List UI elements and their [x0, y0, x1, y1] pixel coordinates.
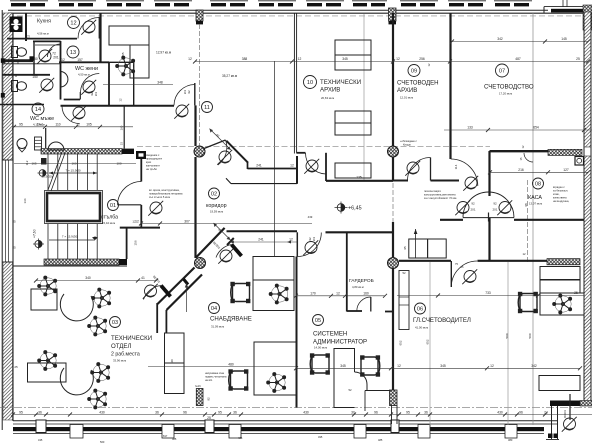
bottom window niches: [70, 425, 517, 439]
wall kitchen left x26: [25, 13, 27, 41]
fan wc lower: [39, 78, 54, 93]
svg-text:ТЕХНИЧЕСКИ: ТЕХНИЧЕСКИ: [111, 335, 152, 342]
wall hatched y149-154 (wc/stair): [41, 149, 122, 154]
svg-text:112: 112: [25, 160, 29, 165]
dim line y41.5 top right: [452, 41, 588, 43]
svg-text:40: 40: [170, 359, 174, 363]
dim diag arrow vestibule: [214, 223, 231, 240]
door room06: leaf + arc: [450, 261, 452, 287]
svg-text:със стъкло 5 кв.м: със стъкло 5 кв.м: [149, 195, 170, 199]
door room07: arc: [451, 159, 478, 186]
axis x364: [363, 14, 365, 180]
svg-text:ГЛ.СЧЕТОВОДИТЕЛ: ГЛ.СЧЕТОВОДИТЕЛ: [413, 317, 471, 324]
svg-text:06: 06: [417, 307, 423, 313]
wall stair-corridor x141.3 lower: [140, 205, 142, 227]
fan wc-muzhe: [71, 106, 86, 121]
node room12 circle: [68, 17, 80, 29]
svg-text:07: 07: [499, 69, 505, 75]
half-round sink at stair wall: [48, 142, 64, 150]
dim line y414.5 bottom: [13, 414, 592, 416]
svg-text:4,80 кв.м: 4,80 кв.м: [352, 285, 364, 289]
chair room04 lower: [267, 373, 286, 393]
door wc-muzhe arc: [62, 106, 80, 124]
safe box kasa: [575, 157, 584, 166]
wall wc y60.7: [2, 59, 33, 62]
svg-text:09: 09: [411, 69, 417, 75]
svg-text:12: 12: [61, 58, 65, 62]
svg-text:241: 241: [258, 238, 264, 242]
node room03 circle: [110, 317, 121, 328]
svg-text:388: 388: [242, 57, 248, 61]
wall niche diagonal: [226, 178, 231, 183]
svg-text:03: 03: [112, 320, 118, 326]
svg-text:17,20 кв.м: 17,20 кв.м: [499, 92, 512, 96]
svg-text:817: 817: [163, 434, 168, 438]
column corridor south: [195, 258, 206, 269]
radiator wc: [35, 137, 42, 150]
door tag box: [136, 151, 146, 159]
svg-text:96: 96: [519, 410, 523, 414]
level mark upper flight: [39, 170, 46, 177]
pedestal sink wc-muzhe: [17, 139, 27, 149]
wall end hatched pier x393: [390, 390, 398, 406]
wall kasa top y151.2: [490, 150, 549, 152]
svg-text:92: 92: [90, 92, 94, 96]
svg-text:WC жени: WC жени: [75, 66, 98, 72]
svg-text:04: 04: [211, 306, 217, 312]
toilet 2: [12, 81, 18, 92]
round desk room03 upper: [60, 294, 93, 321]
svg-text:201: 201: [312, 236, 316, 241]
svg-text:11: 11: [204, 105, 210, 111]
svg-text:165: 165: [31, 162, 36, 166]
node room04 circle: [209, 303, 220, 314]
svg-text:WC мъже: WC мъже: [30, 116, 54, 122]
wall garderob south y311: [347, 310, 362, 312]
svg-text:345: 345: [340, 364, 346, 368]
door kasa small arc: [524, 153, 533, 162]
door wc13: arc: [48, 44, 61, 57]
armchair room06: [518, 292, 537, 312]
svg-text:485: 485: [378, 438, 383, 442]
svg-text:12: 12: [336, 292, 340, 296]
svg-text:96: 96: [183, 410, 187, 414]
svg-text:36: 36: [38, 410, 42, 414]
wall room05-06 x393: [392, 222, 394, 257]
svg-text:652: 652: [399, 340, 403, 345]
svg-text:+6,45: +6,45: [348, 206, 362, 212]
svg-text:36: 36: [155, 410, 159, 414]
chair room04 upper: [269, 284, 288, 304]
dim line y366.5 room03 lower part: [148, 366, 296, 368]
wall bottom assembly: [0, 394, 592, 444]
fan corridor-north: [217, 150, 232, 165]
svg-text:на тръби: на тръби: [146, 167, 157, 171]
svg-text:13: 13: [70, 50, 76, 56]
svg-text:430: 430: [497, 410, 503, 414]
svg-text:439: 439: [308, 215, 313, 219]
node room01 circle: [108, 200, 119, 211]
node room08 circle: [533, 178, 544, 189]
wall corridor west x195.5: [194, 105, 196, 146]
axis x274: [274, 61, 276, 256]
svg-text:12: 12: [132, 220, 136, 224]
door diagonal corridor lower: black leaf + arc: [161, 286, 171, 297]
pier hatched mid-bottom x196: [196, 389, 203, 406]
svg-text:12: 12: [70, 21, 76, 27]
fan room05 door: [303, 240, 318, 255]
wall niche y168.5: [248, 168, 298, 170]
svg-text:25: 25: [12, 220, 16, 224]
dim line y295.8 garderob: [297, 295, 386, 297]
node room02 circle: [209, 188, 220, 199]
svg-text:за с онеустойчивост 72 мм.: за с онеустойчивост 72 мм.: [424, 196, 457, 200]
chair room 12.97: [116, 56, 135, 76]
svg-text:напушване с/на: напушване с/на: [205, 371, 224, 375]
svg-text:СИСТЕМЕН: СИСТЕМЕН: [313, 331, 347, 338]
svg-text:256: 256: [419, 57, 425, 61]
wall vestibule east x297: [296, 156, 298, 184]
pier hatched (top, at x196): [196, 10, 203, 24]
svg-text:342: 342: [497, 37, 503, 41]
wall wc-zheni south y99.5: [64, 99, 80, 101]
svg-text:30: 30: [351, 410, 355, 414]
wall garderob west x346.8: [346, 232, 348, 312]
armchair room05 right: [361, 356, 380, 376]
svg-text:500: 500: [528, 333, 532, 338]
wall wc-muzhe top y104.5: [0, 104, 44, 106]
svg-text:216: 216: [518, 168, 524, 172]
wall diagonal corridor SE lower: [167, 275, 203, 311]
svg-text:6: 6: [17, 61, 19, 65]
dim line y163.5 stair: [14, 163, 136, 165]
wall room11-room10 x295.4: [293, 13, 295, 154]
fan kitchen: [81, 20, 96, 35]
door room10: arc: [306, 153, 327, 174]
door room11: leaf + arc: [194, 83, 196, 105]
svg-text:05: 05: [315, 318, 321, 324]
svg-text:652: 652: [426, 339, 430, 344]
svg-text:12: 12: [397, 364, 401, 368]
svg-text:348: 348: [157, 81, 163, 85]
wall diagonal corridor lower: [158, 268, 195, 305]
node room14 circle: [32, 103, 44, 115]
wall left hatched: [2, 10, 13, 430]
svg-text:ТЕХНИЧЕСКИ: ТЕХНИЧЕСКИ: [320, 79, 361, 86]
svg-text:24: 24: [544, 410, 548, 414]
column x393 south: [388, 258, 399, 269]
svg-text:430: 430: [99, 410, 105, 414]
svg-text:25: 25: [12, 246, 16, 250]
axis dashed y146 corridor: [137, 146, 490, 148]
wall room10 south y180.8: [326, 180, 393, 182]
axis x430: [429, 262, 431, 425]
axis dashed x527: [527, 180, 529, 262]
svg-text:8: 8: [15, 74, 17, 78]
chairs room03 upper: [38, 276, 57, 296]
svg-text:110: 110: [55, 123, 60, 127]
svg-text:41: 41: [141, 276, 145, 280]
wall diagonal corridor upper: [196, 228, 225, 258]
svg-text:127: 127: [563, 168, 569, 172]
wall right hatched: [584, 12, 591, 401]
chairs room03 lower: [38, 351, 57, 371]
svg-text:95: 95: [403, 246, 407, 250]
svg-text:14,00 кв.м: 14,00 кв.м: [314, 346, 327, 350]
svg-text:36: 36: [424, 410, 428, 414]
svg-text:480: 480: [228, 362, 234, 366]
svg-text:02: 02: [211, 192, 217, 198]
stair dim arrow lower: [49, 239, 95, 241]
axis dashed x199: [199, 24, 201, 146]
svg-text:52: 52: [402, 271, 406, 275]
wall y62.3 east part: [109, 61, 134, 63]
cabinet strip garderob east: [399, 271, 409, 330]
wall wc y74.8: [2, 74, 50, 76]
svg-text:114: 114: [454, 164, 458, 169]
svg-text:95: 95: [19, 410, 23, 414]
armchair room04 lower: [229, 370, 248, 390]
svg-text:33,96 кв.м: 33,96 кв.м: [113, 359, 126, 363]
door garderob: leaf + arc: [370, 297, 372, 312]
svg-text:160: 160: [71, 162, 76, 166]
svg-text:15: 15: [119, 142, 123, 146]
svg-text:100: 100: [116, 162, 121, 166]
svg-text:12: 12: [289, 238, 293, 242]
svg-text:654: 654: [533, 126, 539, 130]
svg-text:Кищур: Кищур: [403, 143, 411, 147]
svg-text:430: 430: [303, 410, 309, 414]
wall room03 top y266: [13, 265, 127, 267]
svg-text:12,97 кв.м: 12,97 кв.м: [156, 51, 171, 55]
entry icon top-left: [10, 17, 23, 33]
svg-text:133: 133: [467, 126, 473, 130]
dim line y295.5 room06: [397, 295, 584, 297]
armchair room05 left: [310, 354, 329, 374]
svg-text:165: 165: [121, 52, 125, 57]
wall wc-zheni east x109: [108, 62, 110, 106]
svg-text:95: 95: [218, 410, 222, 414]
door room05: leaf + arc: [296, 232, 298, 256]
wall room03-04 x157.2: [156, 303, 158, 333]
bottom piers: [36, 420, 399, 433]
svg-text:90/201: 90/201: [563, 409, 567, 417]
svg-text:340: 340: [85, 276, 91, 280]
svg-text:№16: №16: [195, 384, 201, 388]
wire dashed line below top wall: [8, 15, 590, 17]
svg-text:52: 52: [348, 388, 352, 392]
svg-text:160: 160: [363, 292, 369, 296]
wall wc x34: [33, 41, 35, 75]
round desk room03 lower: [60, 368, 93, 395]
wall corridor south y219.8: [440, 219, 463, 221]
desk room03 upper: [31, 289, 57, 310]
svg-text:25: 25: [14, 365, 18, 369]
wall wc cabin y45: [35, 44, 60, 46]
desk room04 lower: [254, 342, 296, 395]
svg-text:12: 12: [119, 98, 123, 102]
svg-text:157: 157: [77, 58, 83, 62]
svg-text:за безопасн.: за безопасн.: [553, 189, 568, 193]
wall x133.7: [133, 62, 135, 106]
svg-text:92: 92: [471, 202, 475, 206]
wall room06 north y260.8: [399, 260, 451, 262]
dim line y242 vestibule: [230, 241, 298, 243]
svg-text:ОТДЕЛ: ОТДЕЛ: [111, 343, 131, 350]
dim diag arrow corridor upper: [210, 129, 231, 150]
svg-text:стълба: стълба: [101, 215, 118, 221]
sink wc-zheni: [61, 72, 68, 88]
door stair: leaf + arc: [118, 204, 142, 206]
window in left wall (stair): [5, 160, 7, 262]
svg-text:12: 12: [396, 57, 400, 61]
svg-text:коридор: коридор: [206, 203, 227, 209]
door bottom-right recess: [544, 394, 592, 444]
node room11 circle: [202, 102, 213, 113]
svg-text:ГАРДЕРОБ: ГАРДЕРОБ: [349, 278, 374, 284]
cabinets room06 top: [409, 239, 428, 258]
elevator shaft: [45, 191, 103, 224]
dim line y130 right: [444, 129, 592, 131]
wall kitchen south y38.5: [7, 38, 77, 40]
svg-text:380: 380: [508, 438, 513, 442]
svg-text:08: 08: [535, 182, 541, 188]
axis dashed x393 low: [392, 183, 394, 222]
axis x533: [532, 13, 534, 425]
svg-text:345: 345: [440, 364, 446, 368]
node room07 circle: [496, 64, 509, 77]
dim line y84.5 room11 door: [103, 84, 173, 86]
svg-text:241: 241: [256, 164, 262, 168]
svg-text:201: 201: [470, 208, 475, 212]
svg-text:112: 112: [27, 34, 31, 39]
wall wc-zheni north y62.3: [59, 61, 109, 63]
svg-text:на в/п.: на в/п.: [205, 378, 213, 382]
svg-text:92: 92: [207, 397, 211, 401]
svg-text:7 × 15,9(30): 7 × 15,9(30): [62, 235, 78, 239]
dim line y280.5 room03: [36, 280, 156, 282]
svg-text:пожаробезопасна негорима: пожаробезопасна негорима: [149, 192, 183, 196]
svg-text:733: 733: [485, 291, 491, 295]
svg-text:125: 125: [356, 176, 362, 180]
door diagonal vestibule upper: black leaf + arc: [232, 245, 242, 257]
svg-text:170: 170: [310, 292, 316, 296]
fan corridor west: [148, 201, 163, 216]
svg-text:201: 201: [53, 56, 59, 60]
svg-text:150: 150: [32, 57, 38, 61]
door corridor-north diagonal: leaf + small arc: [204, 140, 226, 149]
svg-text:201: 201: [492, 208, 497, 212]
wall y180.5 segments: [393, 180, 408, 182]
wall top (double line): [8, 9, 548, 11]
svg-text:12: 12: [522, 252, 526, 256]
svg-text:41,00 кв.м: 41,00 кв.м: [415, 326, 428, 330]
svg-text:485: 485: [238, 436, 243, 440]
stair flight line: [48, 152, 62, 190]
svg-text:4,50 кв.м: 4,50 кв.м: [78, 73, 90, 77]
svg-text:12: 12: [490, 364, 494, 368]
svg-text:25: 25: [574, 291, 578, 295]
desk room03 lower: [28, 363, 67, 382]
desk room06 lower: [539, 376, 580, 391]
svg-text:25: 25: [576, 57, 580, 61]
wall corridor corner x126.6: [126, 228, 128, 259]
dim line y368.3 bottom rooms: [297, 367, 581, 369]
node room13 circle: [67, 46, 79, 58]
svg-text:487: 487: [515, 57, 521, 61]
svg-text:АРХИВ: АРХИВ: [320, 87, 340, 94]
svg-text:35,27 кв.м: 35,27 кв.м: [222, 74, 237, 78]
svg-text:342: 342: [531, 364, 537, 368]
svg-text:12,01 кв.м: 12,01 кв.м: [400, 96, 413, 100]
svg-text:СЧЕТОВОДЕН: СЧЕТОВОДЕН: [397, 80, 439, 87]
svg-text:92: 92: [493, 202, 497, 206]
wall room05-04 x296.5: [296, 257, 298, 408]
fan room11 door: [174, 104, 189, 119]
shelves room10: [335, 40, 371, 55]
svg-text:18,9(30): 18,9(30): [41, 175, 52, 179]
desk room05 L-shape: [334, 349, 355, 408]
column corridor north: [194, 146, 205, 157]
svg-text:2/н1: 2/н1: [37, 123, 44, 127]
stair risers lower: [48, 224, 97, 259]
svg-text:345: 345: [342, 57, 348, 61]
svg-text:98: 98: [524, 203, 528, 207]
wall niche y183.5: [231, 183, 297, 185]
wall room09-07 x450.5: [449, 13, 451, 159]
svg-text:+7,60: +7,60: [33, 229, 37, 238]
black wall tags wc: [1, 58, 5, 63]
svg-text:+обляждане с: +обляждане с: [400, 139, 418, 143]
wall kasa west x489.5: [488, 151, 490, 196]
fan vestibule upper: [218, 249, 233, 264]
level mark +6.45: [337, 204, 345, 212]
svg-text:201: 201: [183, 89, 187, 94]
wall corridor corner y227.5: [120, 227, 160, 229]
axis x508: [507, 262, 509, 425]
wall wc mid x60.5: [60, 41, 62, 100]
svg-text:307: 307: [184, 219, 190, 223]
svg-text:Кухня: Кухня: [37, 19, 51, 25]
dim line y126.8 wc: [14, 126, 133, 128]
wall hatched y259-265 (stair/room03): [44, 259, 119, 265]
double door dome (corridor-07): [455, 192, 514, 221]
door room09: leaf + arc: [430, 158, 432, 181]
svg-text:12: 12: [188, 57, 192, 61]
svg-text:31,09 кв.м: 31,09 кв.м: [211, 325, 224, 329]
node room06 circle: [415, 303, 426, 314]
wall diagonal SE stub upper: [227, 238, 234, 245]
svg-text:12: 12: [298, 57, 302, 61]
svg-text:АДМИНИСТРАТОР: АДМИНИСТРАТОР: [313, 339, 367, 346]
svg-text:14: 14: [35, 107, 41, 113]
level mark +7.60: [35, 240, 42, 247]
svg-text:150: 150: [32, 75, 38, 79]
column x393: [388, 146, 399, 157]
svg-text:435: 435: [38, 438, 43, 442]
svg-text:12: 12: [76, 123, 80, 127]
cabinets room06 NE: [540, 267, 580, 280]
svg-text:10: 10: [307, 80, 313, 86]
desk room 12.97: [109, 26, 149, 45]
svg-text:2 раб.места: 2 раб.места: [111, 352, 140, 358]
svg-text:145: 145: [561, 37, 567, 41]
wall stair-corridor x141.3 upper: [140, 159, 142, 182]
fan room06 door: [462, 269, 477, 284]
wall kitchen right x100.5: [99, 13, 101, 62]
pier hatched (top, at x389): [389, 8, 397, 24]
svg-text:КАСА: КАСА: [528, 195, 542, 201]
